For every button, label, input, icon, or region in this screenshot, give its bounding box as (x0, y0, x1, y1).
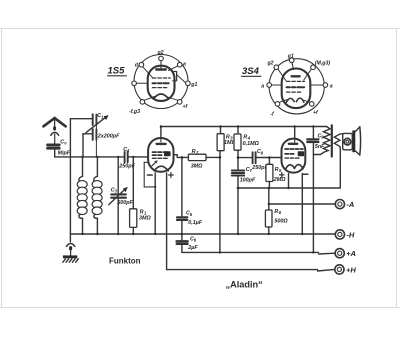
U1 pin connection wires (136, 66, 185, 100)
U2 socket pin M g3 (311, 65, 316, 70)
svg-text:-f: -f (270, 111, 275, 117)
wire C9 bottom down to +A line (312, 143, 314, 252)
svg-text:0,1MΩ: 0,1MΩ (243, 141, 260, 147)
speaker LS1 (343, 127, 361, 155)
V2 minus marker (303, 173, 308, 175)
wire V1 g3 loop to -f (144, 162, 155, 187)
svg-text:+f: +f (183, 104, 189, 110)
U1 socket pin g2 (159, 56, 164, 61)
svg-text:a: a (330, 84, 333, 90)
capacitor C9 5nF (307, 127, 325, 151)
V1 minus marker (147, 174, 152, 176)
transformer T1 primary (313, 127, 330, 155)
terminal -A (335, 200, 354, 210)
+H switch blade (318, 269, 335, 271)
svg-text:-H: -H (346, 230, 354, 239)
svg-text:1S5: 1S5 (108, 66, 126, 77)
U1 socket pin a (177, 62, 182, 67)
U1 envelope (148, 66, 175, 101)
capacitor C3 500pF (padder, variable) (109, 157, 134, 234)
resistor R3 1MOhm (217, 127, 236, 158)
svg-text:3: 3 (115, 189, 118, 194)
transformer T1 core (331, 125, 333, 156)
resistor R2 3MOhm (188, 149, 219, 169)
svg-text:3S4: 3S4 (242, 66, 260, 77)
resistor R4 0.1MOhm (234, 127, 260, 158)
transformer T1 secondary (334, 134, 342, 149)
svg-text:6: 6 (194, 238, 197, 243)
U2 pin connection wires (272, 69, 324, 102)
svg-text:2MΩ: 2MΩ (273, 177, 286, 183)
svg-text:2µF: 2µF (187, 245, 198, 251)
tube V1 1S5 (148, 138, 173, 172)
wire V1 -f to ground rail (154, 173, 156, 234)
svg-text:6: 6 (279, 210, 282, 215)
capacitor C7 100pF (232, 158, 256, 234)
wire speaker return down to bias line (339, 149, 341, 188)
tube socket diagram U1 1S5 (134, 55, 188, 109)
wire R4 bottom to C8 and V2 grid (238, 157, 252, 159)
terminal +A (335, 249, 356, 259)
svg-text:Funkton: Funkton (109, 257, 141, 266)
svg-text:500pF: 500pF (117, 200, 133, 206)
svg-text:a: a (261, 84, 264, 90)
-A line (269, 203, 336, 205)
+A line (182, 251, 319, 253)
capacitor C1 2x200pF tuning gang (83, 113, 120, 157)
svg-text:g1: g1 (287, 54, 294, 60)
U2 pin labels (261, 54, 333, 118)
V2 plus marker (280, 173, 284, 177)
U1 socket pin left (132, 81, 137, 86)
wire grid line C4 to tube V1 (128, 156, 148, 158)
svg-text:-f,g3: -f,g3 (129, 109, 140, 115)
svg-text:8: 8 (261, 150, 264, 155)
wire V1 anode to R2 (173, 155, 188, 158)
wire C1 lower section to coil L1 (82, 134, 84, 157)
svg-text:+f: +f (313, 110, 319, 116)
resistor R1 3MOhm (grid leak) (130, 157, 152, 234)
text Aladin (226, 279, 263, 289)
U1 socket pin -f g3 (140, 100, 145, 105)
svg-text:4: 4 (126, 148, 130, 153)
V1 plus marker (169, 173, 174, 178)
terminal +H (335, 265, 357, 275)
svg-text:R: R (275, 167, 279, 173)
svg-text:2x200pF: 2x200pF (97, 134, 120, 140)
U2 envelope (282, 69, 311, 109)
resistor R6 500Ohm (265, 188, 288, 234)
ground rail / -H line (70, 233, 336, 235)
junction dots (81, 125, 314, 253)
U1 pin labels (129, 50, 197, 115)
svg-text:100pF: 100pF (240, 178, 256, 184)
resistor R5 2MOhm (grid leak V2) (266, 158, 286, 189)
svg-text:90pF: 90pF (58, 150, 71, 156)
svg-text:3MΩ: 3MΩ (139, 215, 151, 221)
tube V2 3S4 (282, 139, 306, 173)
U2 socket pin a left (267, 83, 272, 88)
svg-text:3MΩ: 3MΩ (191, 163, 203, 169)
ground symbol (63, 234, 78, 262)
svg-text:4: 4 (247, 136, 251, 141)
wire V1 +f down to +H line (166, 173, 168, 270)
capacitor C6 2uF (177, 236, 199, 252)
svg-text:5: 5 (190, 212, 193, 217)
wire V2 top to rail (294, 127, 296, 139)
U2 socket pin g2 (274, 65, 279, 70)
U2 socket pin -f (275, 102, 280, 107)
U2 socket pin a right (323, 83, 328, 88)
U2 socket pin +f (310, 102, 315, 107)
antenna (44, 118, 66, 143)
wire antenna to grid line (55, 150, 124, 157)
svg-text:0,1µF: 0,1µF (188, 220, 203, 226)
U1 socket pin d (139, 62, 144, 67)
U2 internal electrodes (286, 63, 304, 103)
svg-text:g1: g1 (190, 82, 197, 88)
label 1S5 (108, 66, 127, 77)
wire V2 -f down to ground rail (301, 174, 303, 234)
svg-text:„Aladin“: „Aladin“ (226, 279, 263, 289)
svg-text:R: R (243, 135, 247, 141)
wire R2 right junction down to +A line (219, 157, 221, 252)
wire left rail (C1 top to ground rail) (70, 119, 92, 234)
tube socket diagram U2 3S4 (269, 59, 324, 114)
svg-text:+A: +A (346, 249, 356, 258)
U2 socket pin g1 (289, 58, 294, 63)
text Funkton (109, 257, 141, 266)
svg-text:500Ω: 500Ω (274, 218, 288, 224)
capacitor C5 0.1uF (177, 157, 203, 240)
top rail B+ (161, 127, 327, 137)
+H line (167, 269, 318, 271)
svg-text:g2: g2 (267, 61, 274, 67)
svg-text:R: R (274, 209, 278, 215)
svg-text:g2: g2 (157, 50, 164, 56)
+A switch blade (319, 252, 336, 255)
terminal -H (335, 230, 355, 240)
inductor L2 (tuning coil) (92, 157, 102, 234)
U1 socket pin +f (177, 100, 182, 105)
svg-text:(M,g3): (M,g3) (315, 61, 331, 67)
svg-text:-A: -A (346, 200, 354, 209)
U1 socket pin g1 (186, 81, 191, 86)
svg-text:+H: +H (346, 265, 356, 274)
capacitor C4 250pF (grid coupling) (118, 147, 135, 170)
svg-text:a: a (183, 62, 186, 68)
capacitor Cv 90pF (antenna) (48, 139, 71, 156)
capacitor C8 250pF (251, 149, 282, 171)
bias line (C7 to speaker return) (238, 187, 340, 189)
svg-text:R: R (192, 149, 196, 155)
svg-text:v: v (64, 141, 67, 146)
U1 internal electrodes (153, 61, 177, 99)
label 3S4 (242, 66, 262, 77)
inductor L1 (antenna coil) (77, 157, 87, 234)
wire V2 +f down to bias line (288, 174, 290, 188)
